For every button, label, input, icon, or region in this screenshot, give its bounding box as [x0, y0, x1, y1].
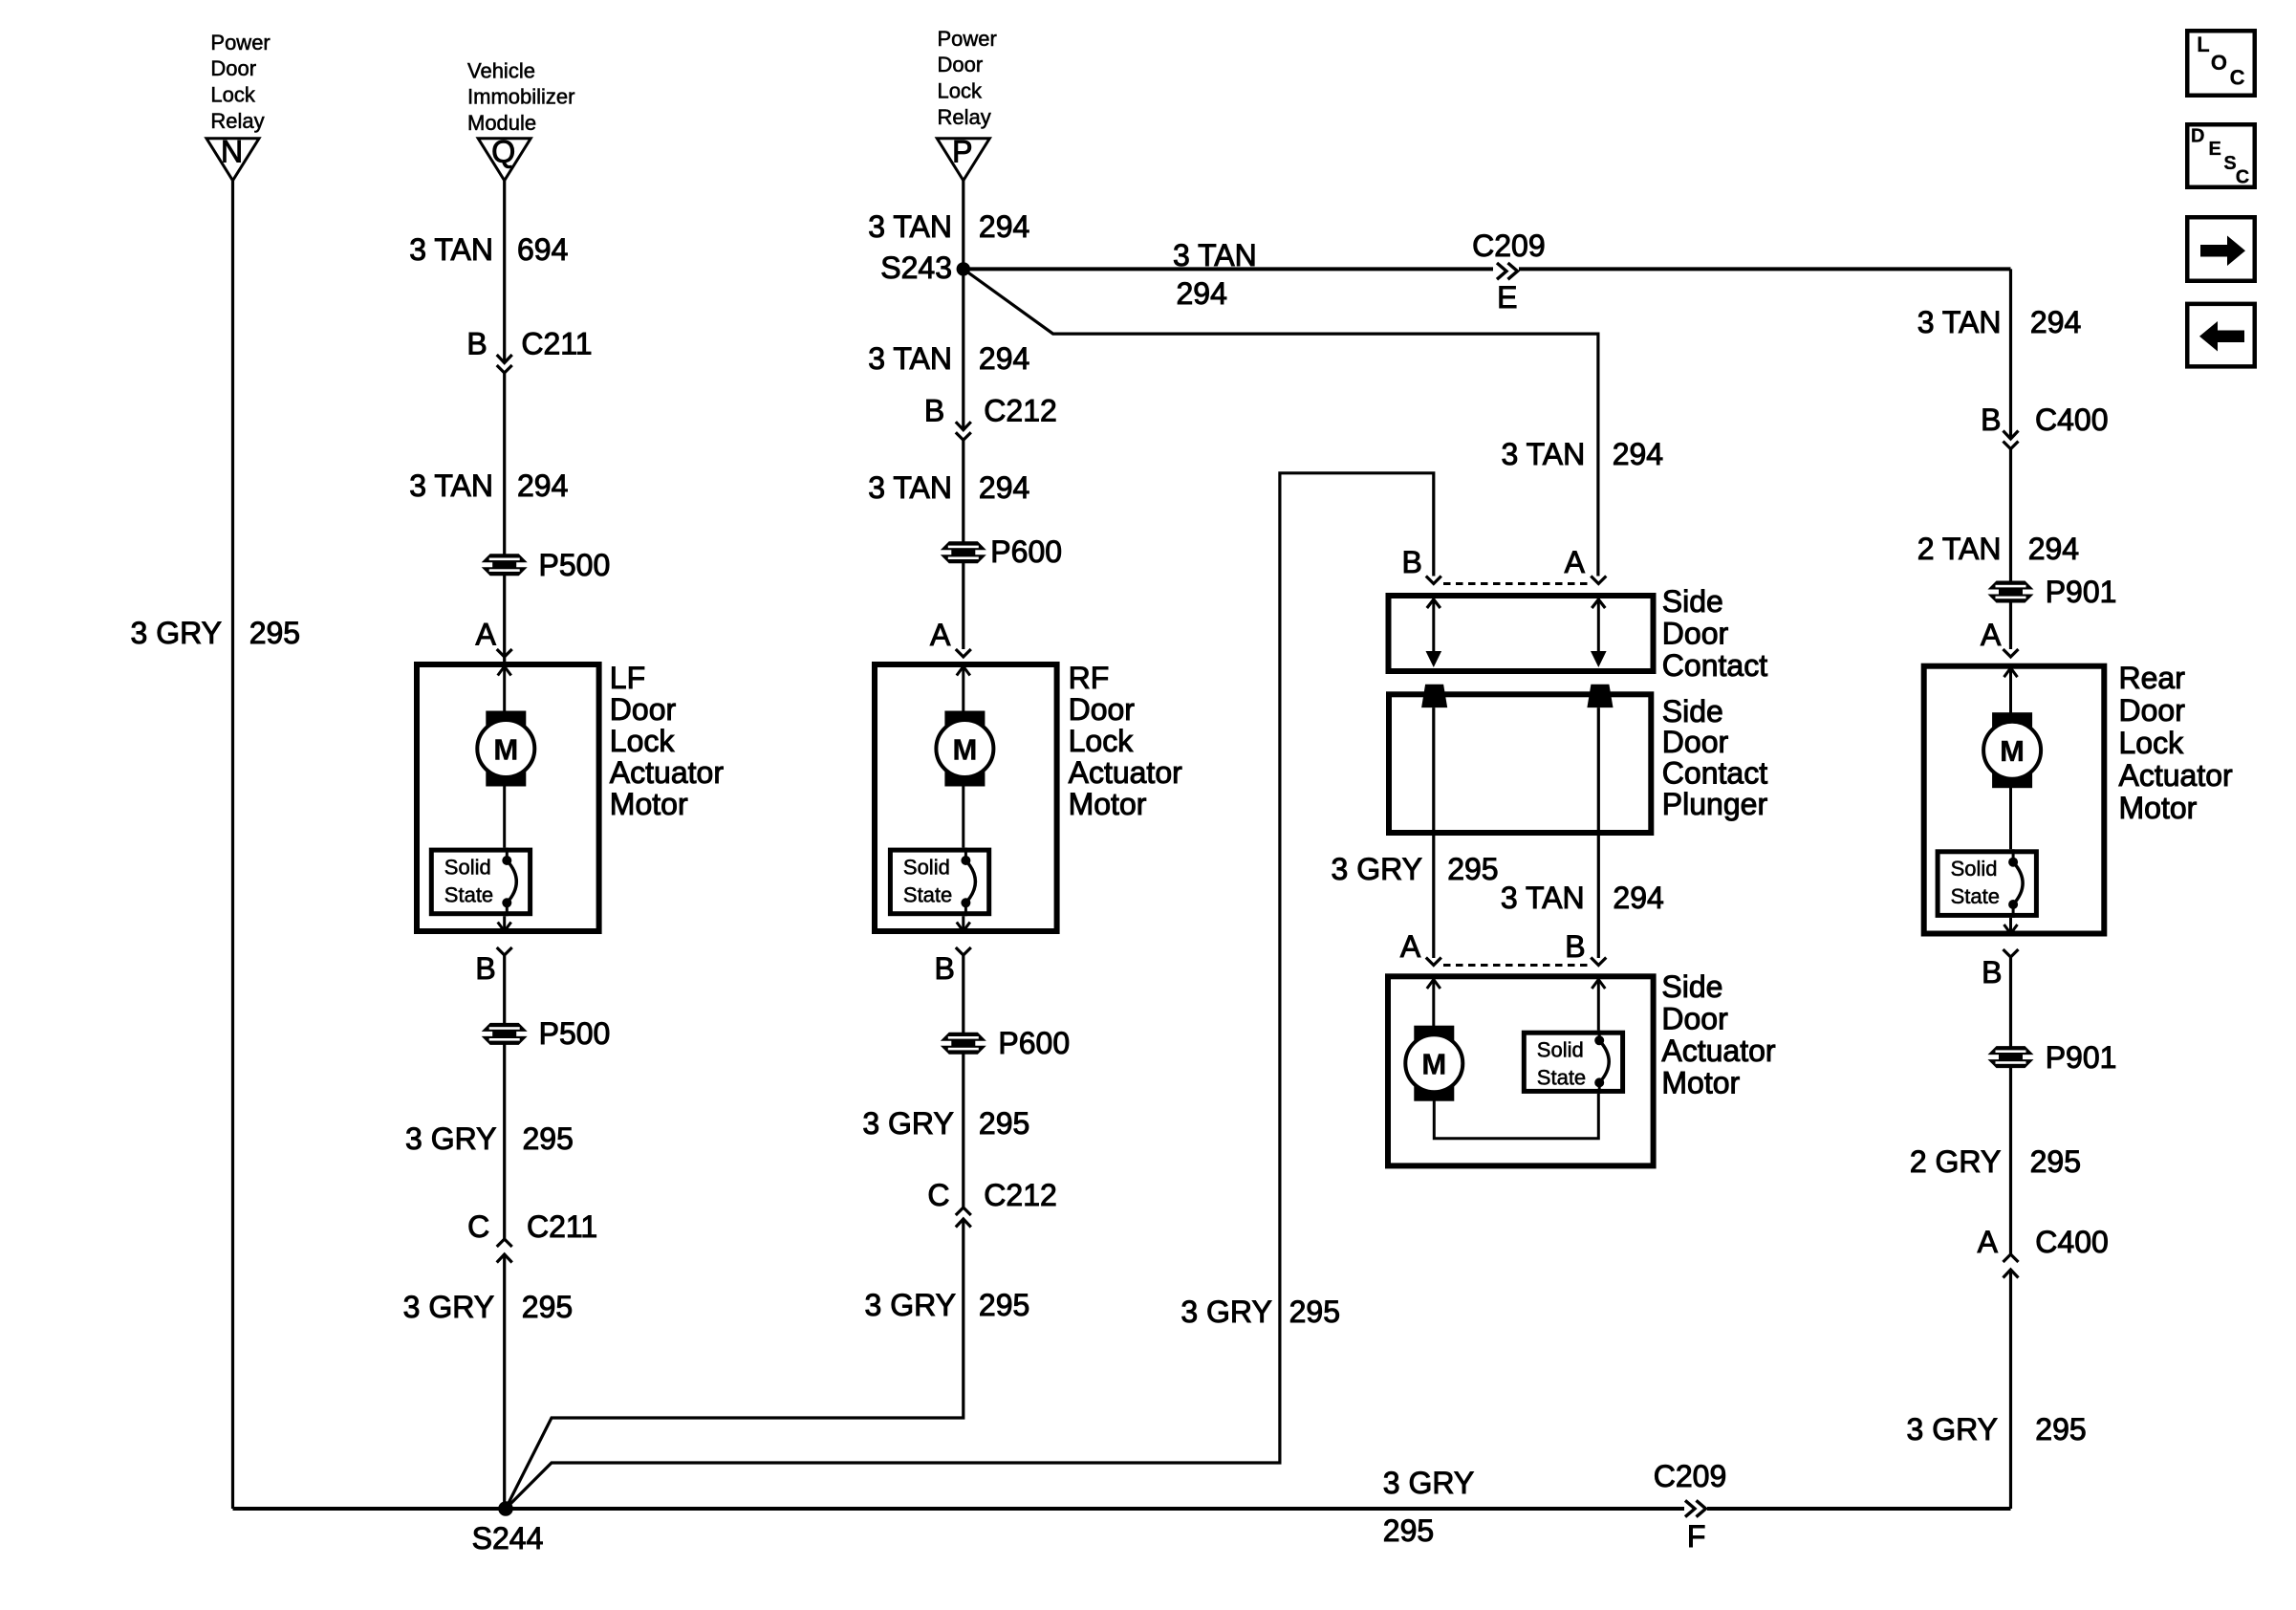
svg-text:Lock: Lock	[610, 724, 676, 758]
svg-text:294: 294	[2030, 305, 2081, 339]
left-arrow icon box	[2187, 304, 2255, 367]
inline connector C212 pin B	[924, 394, 1057, 441]
svg-text:A: A	[1400, 929, 1421, 964]
svg-text:C400: C400	[2035, 1225, 2109, 1259]
svg-text:3 TAN: 3 TAN	[409, 468, 493, 503]
svg-text:3 TAN: 3 TAN	[409, 232, 493, 267]
pin B of side door actuator motor	[1565, 929, 1606, 966]
svg-text:F: F	[1687, 1519, 1706, 1554]
component label: Vehicle Immobilizer Module (Q)	[467, 58, 574, 135]
svg-text:2 TAN: 2 TAN	[1917, 532, 2002, 566]
svg-text:Relay: Relay	[210, 109, 264, 133]
svg-text:3 GRY: 3 GRY	[403, 1290, 494, 1324]
terminal triangle N (power door lock relay)	[206, 135, 259, 181]
terminal triangle Q (vehicle immobilizer module)	[478, 135, 531, 181]
svg-text:Actuator: Actuator	[1069, 755, 1183, 790]
wire: 3 TAN 294 diagonal branch from S243 to side door contact A	[964, 269, 1598, 576]
wire: 3 GRY 295 from plunger left down to actuator A	[1432, 707, 1435, 958]
svg-text:S243: S243	[880, 250, 952, 285]
svg-text:C212: C212	[984, 394, 1057, 428]
wire: 3 TAN 294 from plunger right down to actuator B	[1597, 707, 1600, 958]
svg-text:294: 294	[1613, 437, 1663, 471]
svg-text:294: 294	[517, 468, 568, 503]
svg-text:Door: Door	[1662, 616, 1729, 650]
svg-text:295: 295	[1447, 852, 1498, 886]
svg-text:294: 294	[979, 470, 1029, 505]
svg-text:Side: Side	[1662, 584, 1723, 619]
wire: 3 GRY 295 bottom rail from relay N to rear door via C209 F	[233, 1507, 2011, 1511]
svg-text:294: 294	[1613, 881, 1663, 915]
grommet P600 (upper)	[941, 534, 1062, 569]
grommet P901 (upper)	[1988, 575, 2117, 609]
svg-text:N: N	[221, 135, 243, 169]
svg-text:State: State	[1537, 1065, 1586, 1089]
svg-text:Lock: Lock	[938, 79, 983, 103]
svg-text:295: 295	[523, 1121, 574, 1156]
inline connector C212 pin C	[927, 1178, 1056, 1228]
svg-text:P901: P901	[2046, 1040, 2117, 1075]
svg-text:A: A	[930, 618, 951, 652]
svg-text:Rear: Rear	[2119, 661, 2186, 695]
inline connector C211 pin C	[467, 1209, 597, 1263]
wire label 2 GRY 295	[1910, 1144, 2081, 1179]
wire label 3 TAN 294 (plunger right)	[1501, 881, 1664, 915]
svg-text:3 TAN: 3 TAN	[868, 470, 952, 505]
pin A of side door contact	[1565, 545, 1607, 584]
svg-text:3 GRY: 3 GRY	[1907, 1412, 1998, 1447]
wire: 2 TAN 294 from C400 to rear actuator	[2009, 449, 2012, 650]
plunger (right)	[1587, 685, 1613, 707]
svg-text:E: E	[2209, 139, 2221, 160]
svg-text:B: B	[1982, 955, 2002, 990]
wire label 3 TAN 294 (below S243)	[868, 341, 1029, 376]
dashed connector line (side door actuator motor)	[1443, 964, 1588, 967]
wire label 3 TAN 294 (above P600)	[868, 470, 1029, 505]
svg-text:3 GRY: 3 GRY	[865, 1288, 956, 1322]
wire: 3 GRY 295 from LF actuator down to S244	[503, 955, 506, 1509]
right-arrow icon box	[2187, 217, 2255, 281]
svg-text:294: 294	[979, 209, 1029, 244]
svg-text:Solid: Solid	[903, 855, 950, 879]
svg-text:B: B	[1402, 545, 1422, 579]
svg-text:B: B	[1565, 929, 1585, 964]
svg-text:Power: Power	[938, 27, 997, 51]
component label: LF Door Lock Actuator Motor	[610, 661, 725, 821]
wire label 3 GRY 295 (above C211 pin C)	[405, 1121, 574, 1156]
wire: 3 TAN 294 from C212 to RF actuator	[962, 440, 964, 649]
svg-text:P901: P901	[2046, 575, 2117, 609]
svg-text:S244: S244	[472, 1521, 544, 1556]
inline connector C400 pin A	[1978, 1225, 2109, 1278]
svg-text:Motor: Motor	[1069, 787, 1147, 821]
svg-text:3 TAN: 3 TAN	[1173, 238, 1257, 272]
svg-text:Vehicle: Vehicle	[467, 58, 535, 82]
svg-text:Immobilizer: Immobilizer	[467, 85, 574, 109]
svg-text:State: State	[1951, 884, 2000, 908]
svg-text:294: 294	[2028, 532, 2079, 566]
svg-text:B: B	[934, 951, 954, 986]
svg-text:Door: Door	[210, 56, 256, 80]
svg-text:3 GRY: 3 GRY	[862, 1106, 953, 1141]
svg-text:Side: Side	[1661, 969, 1722, 1004]
svg-text:295: 295	[1383, 1513, 1434, 1548]
wire label 3 TAN 294	[409, 468, 568, 503]
wire label 3 TAN / 294 (two lines near C209 E)	[1173, 238, 1257, 311]
component label: Power Door Lock Relay (P)	[938, 27, 997, 129]
svg-text:295: 295	[522, 1290, 573, 1324]
svg-text:Lock: Lock	[2119, 726, 2185, 760]
svg-text:C: C	[2230, 66, 2245, 90]
svg-text:694: 694	[517, 232, 568, 267]
svg-text:B: B	[475, 951, 495, 986]
component label: Rear Door Lock Actuator Motor	[2119, 661, 2234, 825]
splice S244	[472, 1501, 544, 1556]
svg-text:Door: Door	[1069, 692, 1136, 727]
svg-text:Actuator: Actuator	[1661, 1033, 1776, 1068]
svg-text:3 TAN: 3 TAN	[868, 209, 952, 244]
svg-text:Solid: Solid	[1951, 857, 1998, 881]
svg-text:3 GRY: 3 GRY	[1332, 852, 1422, 886]
component label: Side Door Contact Plunger	[1662, 694, 1768, 821]
component label: Power Door Lock Relay (N)	[210, 31, 270, 133]
grommet P901 (lower)	[1988, 1040, 2117, 1075]
inline connector C209 cavity F	[1654, 1459, 1727, 1554]
side door actuator motor box	[1388, 976, 1654, 1165]
wire label 3 TAN 294 (right column)	[1917, 305, 2082, 339]
wire label 3 GRY 295 (plunger left)	[1332, 852, 1499, 886]
svg-text:P: P	[952, 135, 972, 169]
grommet P600 (lower)	[941, 1026, 1070, 1060]
svg-text:M: M	[952, 733, 977, 767]
svg-text:B: B	[466, 327, 487, 361]
svg-text:294: 294	[1177, 276, 1227, 311]
svg-text:Lock: Lock	[1069, 724, 1135, 758]
svg-text:Motor: Motor	[2119, 791, 2198, 825]
svg-text:RF: RF	[1069, 661, 1110, 695]
svg-text:A: A	[1981, 618, 2002, 652]
svg-text:D: D	[2191, 126, 2204, 147]
svg-text:Actuator: Actuator	[2119, 758, 2234, 793]
svg-text:C: C	[927, 1178, 949, 1212]
svg-text:L: L	[2197, 33, 2209, 56]
svg-text:Door: Door	[2119, 693, 2186, 728]
dashed connector line (side door contact)	[1443, 582, 1589, 585]
svg-text:A: A	[1978, 1225, 1999, 1259]
LF door lock actuator motor box	[417, 664, 599, 931]
svg-text:Solid: Solid	[1537, 1038, 1584, 1062]
wire label 2 TAN 294	[1917, 532, 2079, 566]
svg-text:3 TAN: 3 TAN	[1501, 881, 1585, 915]
svg-text:Door: Door	[938, 53, 984, 76]
svg-text:295: 295	[979, 1106, 1029, 1141]
inline connector C211 pin B	[466, 327, 592, 374]
wire: 3 TAN 294 from C211 to LF actuator	[503, 373, 506, 662]
wire label 3 GRY 295 (below C211 pin C)	[403, 1290, 574, 1324]
wire label 3 GRY 295 (right column lower)	[1907, 1412, 2087, 1447]
pin A of LF door lock actuator motor	[476, 618, 512, 658]
LOC icon box	[2187, 31, 2255, 96]
component label: Side Door Actuator Motor	[1661, 969, 1776, 1100]
pin B of RF door lock actuator motor	[934, 947, 970, 986]
pin B of rear door lock actuator motor	[1982, 949, 2018, 990]
svg-text:Side: Side	[1662, 694, 1723, 729]
svg-text:3 GRY: 3 GRY	[1180, 1295, 1271, 1329]
wire label 3 GRY 295 (below C212 pin C)	[865, 1288, 1030, 1322]
pin A of rear door lock actuator motor	[1981, 618, 2019, 657]
svg-text:B: B	[1981, 402, 2001, 437]
svg-text:295: 295	[2035, 1412, 2086, 1447]
wire: 3 GRY 295 from relay N down left side	[231, 181, 234, 1509]
svg-text:294: 294	[979, 341, 1029, 376]
svg-text:O: O	[2211, 51, 2227, 75]
pin B of LF door lock actuator motor	[475, 947, 511, 986]
svg-text:Module: Module	[467, 111, 536, 135]
splice S243	[880, 250, 970, 285]
svg-text:3 TAN: 3 TAN	[868, 341, 952, 376]
plunger (left)	[1421, 685, 1447, 707]
pin A of side door actuator motor	[1400, 929, 1441, 966]
side door contact plunger box	[1389, 694, 1651, 833]
svg-text:LF: LF	[610, 661, 645, 695]
svg-text:C: C	[2236, 167, 2249, 188]
RF door lock actuator motor box	[875, 664, 1057, 931]
svg-text:Plunger: Plunger	[1662, 787, 1768, 821]
wire label 3 GRY 295 (above C212 pin C)	[862, 1106, 1029, 1141]
svg-text:B: B	[924, 394, 944, 428]
wire: 3 TAN 294 down right side to rear actuator	[2009, 269, 2012, 439]
svg-text:295: 295	[249, 616, 300, 650]
svg-text:Power: Power	[210, 31, 270, 54]
terminal triangle P (power door lock relay)	[937, 135, 989, 181]
svg-text:3 GRY: 3 GRY	[1383, 1466, 1474, 1500]
wire label 3 TAN 694	[409, 232, 568, 267]
inline connector C400 pin B	[1981, 402, 2108, 449]
grommet P500 (lower)	[482, 1016, 611, 1051]
component label: RF Door Lock Actuator Motor	[1069, 661, 1183, 821]
svg-text:C400: C400	[2035, 402, 2109, 437]
svg-text:2 GRY: 2 GRY	[1910, 1144, 2001, 1179]
svg-text:Motor: Motor	[610, 787, 688, 821]
svg-text:Actuator: Actuator	[610, 755, 725, 790]
pin B of side door contact	[1402, 545, 1441, 584]
svg-text:M: M	[2000, 734, 2025, 768]
svg-text:C: C	[467, 1209, 489, 1244]
svg-text:3 TAN: 3 TAN	[1501, 437, 1585, 471]
wire: 3 TAN 294 from S243 to connector C212	[962, 269, 964, 429]
grommet P500 (upper)	[482, 548, 611, 582]
svg-text:Lock: Lock	[210, 83, 255, 107]
wire: 3 GRY 295 from RF actuator to S244	[506, 955, 964, 1509]
svg-text:P500: P500	[539, 1016, 611, 1051]
svg-text:Door: Door	[610, 692, 677, 727]
svg-text:295: 295	[1289, 1295, 1340, 1329]
svg-text:Door: Door	[1661, 1001, 1728, 1035]
svg-text:A: A	[1565, 545, 1586, 579]
svg-text:3 GRY: 3 GRY	[405, 1121, 496, 1156]
svg-text:Motor: Motor	[1661, 1065, 1740, 1099]
wire label 3 GRY 295 (side door return)	[1180, 1295, 1340, 1329]
wire label 3 GRY / 295 (bottom rail)	[1383, 1466, 1474, 1548]
svg-text:Door: Door	[1662, 725, 1729, 759]
wire: 2 GRY 295 from rear actuator down	[2009, 957, 2012, 1509]
svg-text:295: 295	[979, 1288, 1029, 1322]
rear door lock actuator motor box	[1924, 666, 2105, 934]
svg-text:P500: P500	[539, 548, 611, 582]
svg-text:Q: Q	[491, 135, 515, 169]
svg-text:State: State	[903, 882, 952, 906]
DESC icon box	[2187, 124, 2255, 187]
side door contact box	[1389, 596, 1654, 671]
svg-text:C211: C211	[527, 1209, 597, 1244]
wire label 3 TAN 294 (side door contact A branch)	[1501, 437, 1663, 471]
svg-text:Solid: Solid	[444, 855, 491, 879]
svg-text:Contact: Contact	[1662, 648, 1767, 683]
svg-text:A: A	[476, 618, 497, 652]
svg-text:State: State	[444, 882, 493, 906]
svg-text:M: M	[1421, 1048, 1446, 1081]
inline connector C209 cavity E	[1472, 228, 1546, 315]
svg-text:E: E	[1497, 280, 1517, 315]
svg-text:P600: P600	[990, 534, 1062, 569]
svg-text:C209: C209	[1472, 228, 1546, 263]
wire label 3 GRY 295 (left column)	[131, 616, 301, 650]
svg-text:P600: P600	[998, 1026, 1070, 1060]
svg-text:Contact: Contact	[1662, 756, 1767, 791]
wire: 3 TAN 694 from Q to connector C211	[503, 181, 506, 363]
svg-text:3 GRY: 3 GRY	[131, 616, 222, 650]
wire: 3 GRY 295 from side door contact B up, over and down to S244	[506, 473, 1434, 1509]
svg-text:C212: C212	[984, 1178, 1057, 1212]
svg-text:C211: C211	[521, 327, 592, 361]
svg-text:3 TAN: 3 TAN	[1917, 305, 2002, 339]
wire: 3 TAN 294 from S243 right to C209 (E) and rear door	[964, 267, 2011, 271]
pin A of RF door lock actuator motor	[930, 618, 971, 657]
svg-text:Relay: Relay	[938, 105, 991, 129]
svg-text:C209: C209	[1654, 1459, 1727, 1493]
svg-text:295: 295	[2030, 1144, 2081, 1179]
wire label 3 TAN 294 (above S243)	[868, 209, 1029, 244]
svg-text:M: M	[493, 733, 518, 767]
wire: 3 TAN 294 from P to splice S243	[962, 181, 964, 270]
component label: Side Door Contact	[1662, 584, 1767, 683]
